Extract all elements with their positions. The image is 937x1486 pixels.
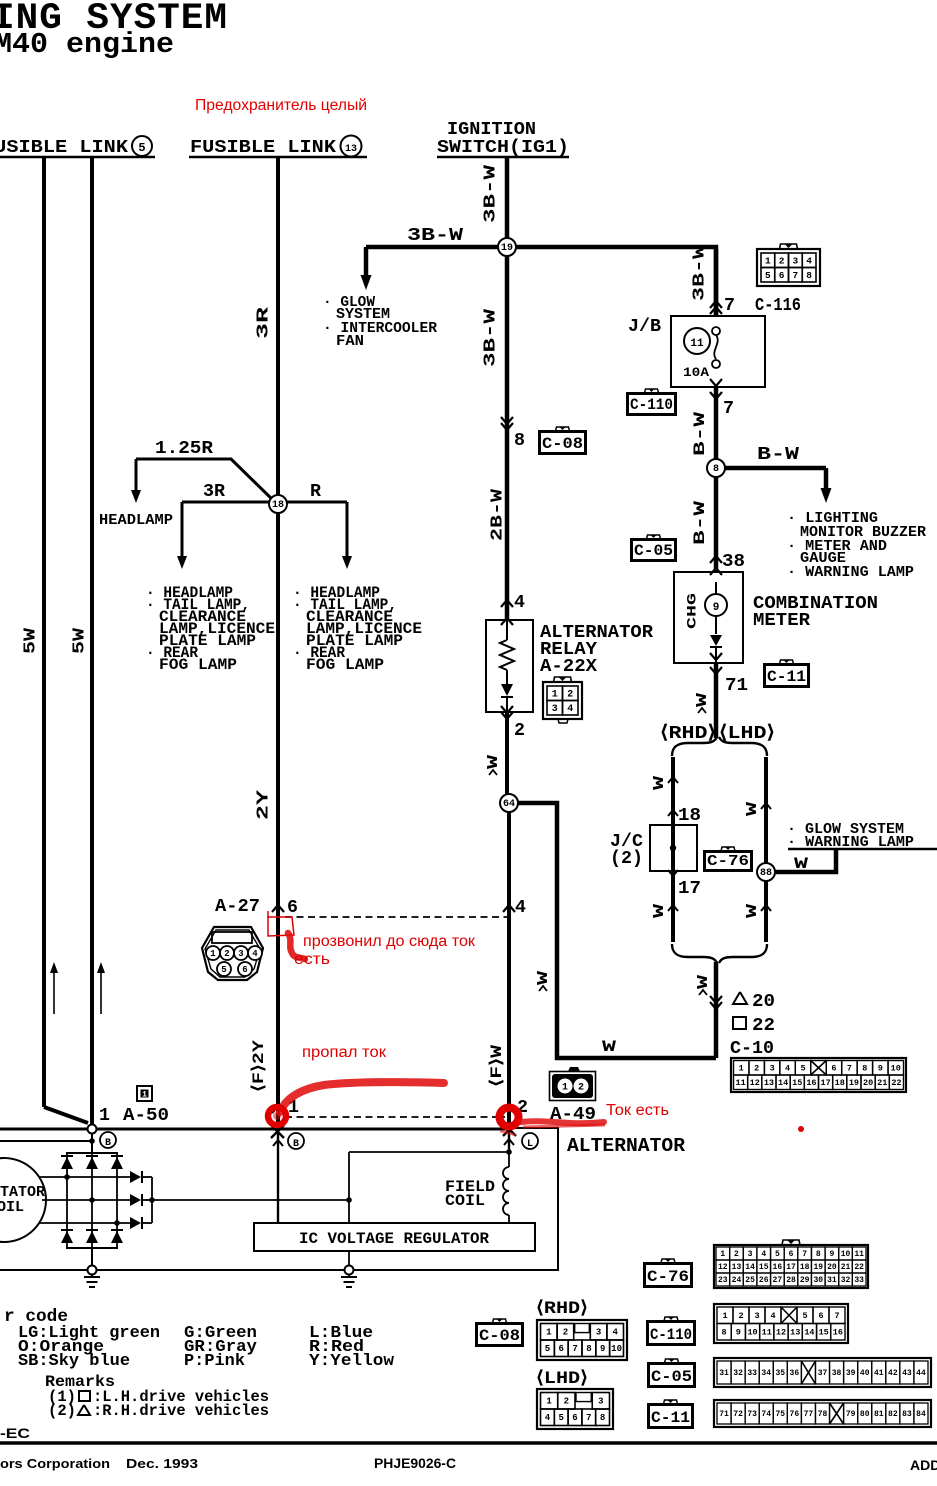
svg-text:40: 40 bbox=[860, 1369, 870, 1378]
svg-text:W: W bbox=[744, 904, 761, 918]
label 3B-W vertical top bbox=[481, 164, 500, 223]
svg-text:3B-W: 3B-W bbox=[407, 226, 463, 246]
label 3B-W vertical right bbox=[690, 244, 709, 301]
svg-text:Dec. 1993: Dec. 1993 bbox=[126, 1456, 198, 1471]
wire R branch bbox=[285, 502, 352, 569]
terminal B at F2Y bbox=[288, 1133, 304, 1150]
svg-text:1: 1 bbox=[546, 1328, 552, 1338]
node 88 branch wire bbox=[775, 849, 836, 872]
svg-text:10: 10 bbox=[611, 1344, 622, 1354]
red note tested current present bbox=[294, 933, 475, 968]
svg-text:10: 10 bbox=[841, 1250, 851, 1259]
connector C-110 grid bbox=[714, 1304, 848, 1343]
dashed line A-49 level bbox=[285, 1116, 505, 1118]
diode in meter bbox=[710, 635, 722, 663]
svg-text:W: W bbox=[602, 1038, 617, 1056]
svg-text:10: 10 bbox=[747, 1328, 757, 1338]
svg-text:30: 30 bbox=[813, 1276, 823, 1285]
connector C-10 grid bbox=[731, 1058, 906, 1092]
connector icon C-110 in diagram bbox=[627, 389, 676, 415]
svg-text:2: 2 bbox=[514, 720, 525, 741]
junction block J/B box bbox=[671, 316, 765, 387]
svg-text:17: 17 bbox=[678, 878, 701, 899]
svg-text:37: 37 bbox=[818, 1369, 828, 1378]
svg-text:B: B bbox=[293, 1139, 299, 1150]
svg-text:4: 4 bbox=[515, 897, 526, 918]
svg-text:33: 33 bbox=[854, 1276, 864, 1285]
pin 4 label mid wire bbox=[503, 897, 526, 918]
svg-text:C-11: C-11 bbox=[651, 1409, 690, 1427]
label 1.25R bbox=[155, 438, 214, 459]
label B-W vertical 1 bbox=[691, 411, 709, 456]
svg-text:11: 11 bbox=[854, 1250, 864, 1259]
wire 3B-W horizontal bus bbox=[366, 247, 716, 316]
charge lamp circle node 9 bbox=[705, 582, 727, 634]
node 19 circle bbox=[498, 238, 516, 256]
connector icon 1 A-50 bbox=[137, 1086, 152, 1101]
svg-text:C-10: C-10 bbox=[730, 1038, 774, 1059]
connector A-49 drawing bbox=[550, 1067, 596, 1101]
pin 71 label bbox=[725, 675, 748, 696]
svg-text:11: 11 bbox=[735, 1078, 745, 1088]
label RHD bottom bbox=[536, 1299, 588, 1319]
svg-text:8: 8 bbox=[722, 1328, 727, 1338]
red note current lost bbox=[302, 1044, 386, 1061]
svg-text:W: W bbox=[695, 975, 712, 989]
svg-text:14: 14 bbox=[778, 1078, 788, 1088]
svg-text:4: 4 bbox=[761, 1250, 766, 1259]
svg-text:84: 84 bbox=[916, 1410, 926, 1419]
svg-text:12: 12 bbox=[776, 1328, 786, 1338]
svg-text:W: W bbox=[485, 755, 502, 769]
svg-text:3: 3 bbox=[793, 255, 799, 266]
pin 38 label bbox=[710, 551, 745, 572]
chevrons down to C-10 bbox=[710, 996, 722, 1009]
svg-text:1: 1 bbox=[546, 1397, 552, 1407]
svg-text:L: L bbox=[527, 1139, 533, 1150]
subtitle 4M40 engine (cut off) bbox=[0, 28, 174, 61]
svg-text:1.25R: 1.25R bbox=[155, 438, 214, 459]
red note current present bbox=[606, 1102, 669, 1119]
label W LHD top bbox=[744, 802, 771, 816]
svg-text:5: 5 bbox=[775, 1250, 780, 1259]
label LHD bottom bbox=[536, 1369, 588, 1389]
connector C-76 grid bbox=[714, 1240, 868, 1288]
label W on branch horizontal bbox=[602, 1038, 617, 1056]
svg-text:25: 25 bbox=[745, 1276, 755, 1285]
svg-text:C-05: C-05 bbox=[634, 542, 673, 560]
svg-text:3B-W: 3B-W bbox=[690, 244, 709, 301]
svg-text:A-27: A-27 bbox=[215, 896, 260, 917]
svg-text:38: 38 bbox=[722, 551, 745, 572]
label FIELD COIL bbox=[445, 1178, 495, 1210]
svg-text:2B-W: 2B-W bbox=[488, 488, 507, 541]
pin 1 label bbox=[272, 1097, 299, 1118]
wire B-W to combination meter bbox=[714, 477, 719, 572]
label 1 A-50 bbox=[99, 1105, 169, 1126]
svg-text:7: 7 bbox=[802, 1250, 807, 1259]
svg-text:8: 8 bbox=[586, 1344, 591, 1354]
svg-text:1: 1 bbox=[765, 255, 771, 266]
wire fusible link 5 right 5W bbox=[90, 157, 94, 1126]
chevron at J/B bottom bbox=[710, 379, 722, 386]
red annotation box at pin 6 bbox=[267, 911, 294, 936]
svg-text:B-W: B-W bbox=[691, 411, 709, 456]
svg-text:35: 35 bbox=[775, 1369, 785, 1378]
pin 2 label relay bbox=[514, 720, 525, 741]
svg-text:8: 8 bbox=[514, 430, 525, 451]
svg-text:8: 8 bbox=[862, 1064, 867, 1074]
label W RHD bottom bbox=[651, 904, 678, 918]
svg-text:5: 5 bbox=[138, 141, 145, 155]
svg-text:5: 5 bbox=[545, 1344, 550, 1354]
label F 2Y bbox=[250, 1040, 268, 1092]
glow warning list bbox=[787, 821, 937, 851]
svg-text:22: 22 bbox=[854, 1263, 864, 1272]
label W at node 88 branch bbox=[794, 855, 809, 873]
svg-text:74: 74 bbox=[761, 1410, 771, 1419]
connector icon C-05 bottom bbox=[648, 1359, 695, 1387]
svg-text:A-22X: A-22X bbox=[540, 656, 598, 677]
svg-text:15: 15 bbox=[759, 1263, 769, 1272]
svg-text:11: 11 bbox=[690, 338, 704, 350]
svg-text:Предохранитель целый: Предохранитель целый bbox=[195, 97, 367, 114]
resistor inside relay bbox=[500, 620, 514, 684]
svg-text:39: 39 bbox=[846, 1369, 856, 1378]
chevrons into J/B bbox=[710, 301, 722, 314]
node 8 circle bbox=[707, 459, 725, 477]
wire node64 branch right-down bbox=[518, 803, 716, 1058]
svg-text:B-W: B-W bbox=[757, 445, 799, 465]
svg-text:2: 2 bbox=[563, 1328, 568, 1338]
alternator relay A-22X box bbox=[486, 620, 533, 712]
connector C-116 grid bbox=[757, 244, 820, 286]
label W LHD bottom bbox=[744, 904, 771, 918]
svg-text:64: 64 bbox=[503, 799, 515, 810]
diode inside relay bbox=[501, 684, 513, 712]
label J/B bbox=[628, 316, 661, 337]
footer text ADD (cut) bbox=[910, 1457, 937, 1473]
svg-text:31: 31 bbox=[719, 1369, 729, 1378]
svg-text:20: 20 bbox=[752, 991, 775, 1012]
rectifier bottom rail bbox=[66, 1248, 118, 1266]
svg-text:36: 36 bbox=[790, 1369, 800, 1378]
node 8 circle with branch bbox=[725, 468, 832, 503]
connector C-08 LHD grid bbox=[537, 1389, 613, 1429]
svg-text:5W: 5W bbox=[70, 627, 89, 654]
svg-text:5W: 5W bbox=[21, 627, 40, 654]
svg-text:ors Corporation: ors Corporation bbox=[0, 1456, 110, 1471]
output diodes to right bbox=[130, 1171, 155, 1229]
svg-text:W: W bbox=[651, 776, 668, 790]
label HEADLAMP left bbox=[99, 512, 173, 529]
svg-text:COIL: COIL bbox=[445, 1192, 485, 1210]
svg-text:8: 8 bbox=[600, 1413, 605, 1423]
svg-text:⟨F⟩2Y: ⟨F⟩2Y bbox=[250, 1040, 268, 1092]
svg-text:77: 77 bbox=[804, 1410, 814, 1419]
svg-text:W: W bbox=[651, 904, 668, 918]
load list lighting monitor bbox=[787, 510, 926, 581]
svg-text:-EC: -EC bbox=[0, 1425, 30, 1441]
svg-text:(2): (2) bbox=[610, 848, 643, 869]
svg-text:22: 22 bbox=[891, 1078, 901, 1088]
svg-text:B: B bbox=[105, 1138, 111, 1149]
svg-text:3B-W: 3B-W bbox=[481, 164, 500, 223]
connector C-05 grid bbox=[714, 1358, 931, 1387]
rectifier top diodes bbox=[61, 1156, 123, 1169]
label W RHD top bbox=[651, 776, 678, 790]
connector icon C-08 bbox=[539, 427, 586, 454]
svg-text:4: 4 bbox=[806, 255, 812, 266]
wire fusible link 5 left 5W bbox=[44, 157, 88, 1123]
rectifier diode columns bbox=[67, 1153, 117, 1248]
wire LHD path bbox=[764, 757, 768, 942]
wire color code legend bbox=[4, 1307, 395, 1371]
wire F W to field coil bbox=[506, 1131, 512, 1155]
wire node 64 down (F W) bbox=[507, 812, 511, 1131]
svg-text:W: W bbox=[744, 802, 761, 816]
pin 2 label A-49 bbox=[503, 1097, 528, 1118]
svg-text:14: 14 bbox=[745, 1263, 755, 1272]
svg-text:R: R bbox=[310, 481, 322, 502]
chevrons below meter bbox=[710, 653, 722, 674]
svg-text:1: 1 bbox=[210, 949, 216, 959]
svg-text:82: 82 bbox=[888, 1410, 898, 1419]
combination meter box bbox=[674, 572, 743, 663]
svg-text:19: 19 bbox=[813, 1263, 823, 1272]
brace bottom right bbox=[719, 944, 767, 963]
svg-text:71: 71 bbox=[725, 675, 748, 696]
label IGNITION SWITCH (IG1) bbox=[437, 119, 569, 158]
footer text document number bbox=[374, 1456, 456, 1471]
svg-text:9: 9 bbox=[600, 1344, 605, 1354]
node 18 circle bbox=[269, 495, 287, 513]
chevron meter top bbox=[710, 568, 722, 575]
svg-text:FAN: FAN bbox=[336, 333, 364, 350]
svg-text:9: 9 bbox=[713, 602, 720, 614]
svg-text:⟨F⟩W: ⟨F⟩W bbox=[488, 1044, 506, 1087]
red circle at F2Y junction bbox=[268, 1107, 286, 1125]
dashed line A-27 level bbox=[285, 916, 513, 918]
rectifier top rail bbox=[66, 1133, 118, 1153]
svg-text:COIL: COIL bbox=[0, 1199, 24, 1216]
svg-text:83: 83 bbox=[902, 1410, 912, 1419]
svg-text:15: 15 bbox=[792, 1078, 802, 1088]
svg-text:18: 18 bbox=[800, 1263, 810, 1272]
load list left headlamp bbox=[146, 584, 275, 674]
svg-text:32: 32 bbox=[841, 1276, 851, 1285]
svg-text:8: 8 bbox=[713, 464, 719, 475]
wire 2Y below node 18 bbox=[276, 513, 280, 1131]
svg-text:2: 2 bbox=[224, 949, 229, 959]
svg-text:3R: 3R bbox=[254, 306, 273, 339]
svg-text:B-W: B-W bbox=[691, 500, 709, 545]
label COMBINATION METER bbox=[753, 593, 878, 631]
svg-text:5: 5 bbox=[802, 1311, 807, 1321]
svg-text:9: 9 bbox=[830, 1250, 835, 1259]
svg-text:пропал ток: пропал ток bbox=[302, 1044, 386, 1061]
rectifier bottom diodes bbox=[61, 1230, 123, 1243]
svg-text:4: 4 bbox=[545, 1413, 551, 1423]
load list right headlamp bbox=[293, 584, 422, 674]
svg-text:FOG LAMP: FOG LAMP bbox=[159, 656, 237, 674]
wire RHD path bbox=[671, 757, 675, 942]
label RHD LHD bbox=[660, 723, 775, 744]
svg-text:14: 14 bbox=[804, 1328, 814, 1338]
svg-text:3B-W: 3B-W bbox=[481, 308, 500, 367]
svg-text:5: 5 bbox=[800, 1064, 805, 1074]
svg-text:C-05: C-05 bbox=[651, 1368, 692, 1386]
red marker stroke current lost bbox=[273, 1082, 444, 1120]
label C-116 bbox=[755, 295, 801, 316]
wire merged to C-10 bbox=[714, 962, 719, 1058]
brace bottom left bbox=[672, 944, 717, 963]
svg-text:2: 2 bbox=[567, 689, 573, 700]
svg-text:HEADLAMP: HEADLAMP bbox=[99, 512, 173, 529]
svg-text:METER: METER bbox=[753, 610, 811, 631]
svg-text:20: 20 bbox=[863, 1078, 873, 1088]
svg-text:28: 28 bbox=[786, 1276, 796, 1285]
svg-text:13: 13 bbox=[790, 1328, 800, 1338]
svg-text:2: 2 bbox=[779, 255, 785, 266]
svg-text:16: 16 bbox=[806, 1078, 816, 1088]
svg-text:3: 3 bbox=[754, 1311, 759, 1321]
svg-text:79: 79 bbox=[846, 1410, 856, 1419]
label R branch bbox=[310, 481, 322, 502]
wire W below meter bbox=[714, 663, 719, 738]
label C-10 bbox=[730, 1038, 774, 1059]
svg-text:3: 3 bbox=[238, 949, 243, 959]
label 5W right bbox=[70, 627, 89, 654]
svg-text:4: 4 bbox=[785, 1064, 790, 1074]
wire 3B-W ignition switch feed bbox=[505, 157, 510, 247]
svg-text:10A: 10A bbox=[683, 365, 709, 380]
svg-text:26: 26 bbox=[759, 1276, 769, 1285]
svg-text:5: 5 bbox=[221, 965, 226, 975]
svg-text:5: 5 bbox=[558, 1413, 563, 1423]
svg-text:C-76: C-76 bbox=[707, 853, 749, 870]
svg-text:FUSIBLE LINK: FUSIBLE LINK bbox=[190, 137, 337, 158]
wire 1.25R branch bbox=[131, 459, 277, 504]
svg-text:7: 7 bbox=[724, 295, 735, 316]
label 3B-W horizontal bbox=[407, 226, 463, 246]
svg-text:IC VOLTAGE REGULATOR: IC VOLTAGE REGULATOR bbox=[299, 1230, 490, 1248]
svg-text:FUSIBLE LINK: FUSIBLE LINK bbox=[0, 137, 129, 158]
junction A-50 circle bbox=[88, 1125, 97, 1134]
brace top left bbox=[672, 737, 717, 756]
field coil loop wires bbox=[349, 1152, 509, 1223]
svg-text:12: 12 bbox=[718, 1263, 728, 1272]
svg-text:21: 21 bbox=[877, 1078, 887, 1088]
svg-text:· WARNING LAMP: · WARNING LAMP bbox=[787, 564, 914, 581]
label 5W left bbox=[21, 627, 40, 654]
svg-text:8: 8 bbox=[816, 1250, 821, 1259]
svg-text:78: 78 bbox=[818, 1410, 828, 1419]
svg-text:1: 1 bbox=[552, 689, 558, 700]
svg-text:9: 9 bbox=[736, 1328, 741, 1338]
svg-text:80: 80 bbox=[860, 1410, 870, 1419]
label FUSIBLE LINK 5 (cut) bbox=[0, 136, 155, 158]
joint connector J/C box bbox=[650, 825, 697, 871]
svg-text:SWITCH(IG1): SWITCH(IG1) bbox=[437, 137, 569, 158]
svg-text:W: W bbox=[535, 971, 552, 985]
svg-text:13: 13 bbox=[345, 144, 357, 155]
wire F2Y to regulator bbox=[277, 1131, 279, 1223]
label 3R branch bbox=[203, 481, 226, 502]
svg-text:18: 18 bbox=[272, 500, 284, 511]
connector icon C-11 bottom bbox=[648, 1400, 693, 1428]
brace top right bbox=[719, 737, 767, 756]
wire B-W to node 8 bbox=[714, 387, 719, 468]
connector C-11 grid bbox=[714, 1400, 931, 1427]
svg-text::R.H.drive vehicles: :R.H.drive vehicles bbox=[93, 1402, 269, 1420]
wire 3B-W down to relay bbox=[505, 256, 510, 620]
pin 18 label bbox=[668, 805, 701, 826]
svg-text:17: 17 bbox=[786, 1263, 796, 1272]
red note: fuse intact bbox=[195, 97, 367, 114]
svg-text:есть: есть bbox=[294, 951, 330, 968]
alternator B bus wire bbox=[0, 1128, 509, 1131]
connector icon C-76 in diagram bbox=[704, 847, 752, 871]
connector icon C-11 in diagram bbox=[764, 660, 809, 687]
svg-text:2Y: 2Y bbox=[254, 789, 273, 820]
terminal L at A-49 bbox=[522, 1133, 538, 1150]
red circle at A-49 junction bbox=[500, 1108, 606, 1136]
svg-text:6: 6 bbox=[287, 897, 298, 918]
svg-text:32: 32 bbox=[733, 1369, 743, 1378]
label glow system / intercooler fan bbox=[323, 294, 437, 350]
label W below relay bbox=[485, 755, 502, 775]
current arrow left bbox=[50, 962, 58, 1014]
node 64 circle bbox=[500, 794, 518, 812]
svg-text:8: 8 bbox=[806, 270, 812, 281]
svg-text:13: 13 bbox=[732, 1263, 742, 1272]
svg-text:3: 3 bbox=[598, 1397, 603, 1407]
svg-text:5: 5 bbox=[765, 270, 771, 281]
svg-text:Y:Yellow: Y:Yellow bbox=[309, 1352, 395, 1371]
red dot near C-10 bbox=[798, 1126, 804, 1132]
svg-text:J/B: J/B bbox=[628, 316, 661, 337]
label B-W horizontal bbox=[757, 445, 799, 465]
pin 8 label bbox=[514, 430, 525, 451]
svg-text:18: 18 bbox=[835, 1078, 845, 1088]
fuse element bbox=[712, 327, 720, 368]
svg-text:71: 71 bbox=[719, 1410, 729, 1419]
crossing X at F2Y wire bbox=[271, 1125, 284, 1146]
svg-text:7: 7 bbox=[572, 1344, 577, 1354]
svg-text:C-11: C-11 bbox=[767, 668, 806, 686]
svg-text:44: 44 bbox=[916, 1369, 926, 1378]
connector icon C-110 bottom bbox=[647, 1317, 695, 1345]
second wire from left bbox=[0, 1138, 95, 1144]
terminal B at A-50 bbox=[100, 1132, 116, 1149]
svg-text:6: 6 bbox=[242, 965, 247, 975]
svg-text:18: 18 bbox=[678, 805, 701, 826]
label F W bbox=[488, 1044, 506, 1087]
connector A-22X pin grid bbox=[543, 677, 582, 723]
label ALTERNATOR bbox=[567, 1135, 686, 1157]
label 3B-W vertical mid bbox=[481, 308, 500, 367]
label 10A bbox=[683, 365, 709, 380]
label ALTERNATOR RELAY A-22X bbox=[540, 622, 654, 677]
svg-text:12: 12 bbox=[750, 1078, 760, 1088]
label CHG bbox=[684, 593, 699, 629]
svg-text:7: 7 bbox=[847, 1064, 852, 1074]
svg-text:1: 1 bbox=[142, 1091, 147, 1100]
footer text corporation bbox=[0, 1456, 198, 1471]
connector A-27 drawing bbox=[202, 927, 263, 980]
svg-text:7: 7 bbox=[793, 270, 799, 281]
